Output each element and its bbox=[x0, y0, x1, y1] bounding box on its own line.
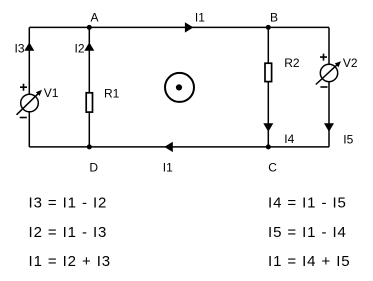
node A bbox=[87, 25, 92, 30]
svg-text:I3 = I1 - I2: I3 = I1 - I2 bbox=[29, 194, 108, 211]
svg-text:I1 = I2 + I3: I1 = I2 + I3 bbox=[29, 253, 112, 270]
svg-text:I5 = I1 - I4: I5 = I1 - I4 bbox=[268, 224, 347, 241]
svg-text:V2: V2 bbox=[343, 56, 358, 70]
svg-text:I4: I4 bbox=[284, 132, 294, 146]
svg-text:I4 = I1 - I5: I4 = I1 - I5 bbox=[268, 194, 347, 211]
svg-text:I5: I5 bbox=[343, 133, 353, 147]
svg-text:I1 = I4 + I5: I1 = I4 + I5 bbox=[268, 253, 351, 270]
V2 minus sign bbox=[320, 86, 327, 88]
wire left branch (through V1) bbox=[28, 27, 30, 146]
svg-text:I2 = I1 - I3: I2 = I1 - I3 bbox=[29, 224, 108, 241]
svg-text:D: D bbox=[89, 161, 98, 175]
V1 minus sign bbox=[20, 117, 27, 119]
current arrow I1 top (rightward) bbox=[185, 22, 194, 32]
current arrow I2 (upward) bbox=[84, 42, 94, 50]
voltage source V2 body bbox=[320, 64, 337, 81]
voltage source V2 arrow bbox=[316, 65, 338, 85]
svg-text:R2: R2 bbox=[284, 56, 300, 70]
svg-text:C: C bbox=[268, 161, 277, 175]
node D bbox=[87, 144, 92, 149]
svg-text:I1: I1 bbox=[195, 10, 205, 24]
current arrow I4 (downward) bbox=[263, 123, 273, 132]
node C bbox=[266, 144, 271, 149]
current arrow I3 (upward) bbox=[24, 42, 34, 50]
voltage source V1 arrow bbox=[17, 93, 39, 115]
svg-text:I2: I2 bbox=[75, 42, 85, 56]
wire bottom segment D-C bbox=[29, 146, 329, 148]
wire branch B-C (through R2) bbox=[267, 27, 269, 146]
svg-text:I3: I3 bbox=[15, 42, 25, 56]
resistor R1 bbox=[86, 93, 92, 112]
wire right branch (through V2) bbox=[328, 27, 330, 146]
svg-text:I1: I1 bbox=[163, 161, 173, 175]
current arrow I1 bottom (leftward) bbox=[164, 142, 173, 152]
wire top segment A-B bbox=[29, 26, 329, 28]
resistor R2 bbox=[265, 63, 272, 81]
svg-text:A: A bbox=[91, 10, 99, 24]
svg-text:V1: V1 bbox=[44, 86, 59, 100]
voltage source V1 body bbox=[21, 94, 39, 112]
svg-text:R1: R1 bbox=[104, 87, 120, 101]
svg-text:B: B bbox=[270, 10, 278, 24]
current arrow I5 (downward) bbox=[324, 123, 334, 132]
node B bbox=[266, 25, 271, 30]
magnetic field out-of-page symbol (circle with dot) bbox=[165, 73, 194, 102]
V2 plus sign bbox=[320, 54, 327, 61]
V1 plus sign bbox=[20, 84, 27, 91]
wire branch A-D (through R1) bbox=[88, 27, 90, 146]
